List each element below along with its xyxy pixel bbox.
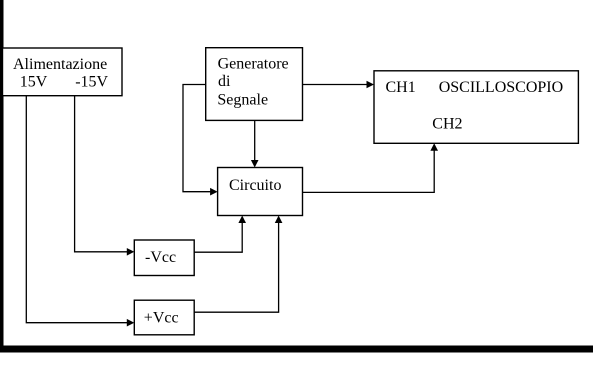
svg-text:-Vcc: -Vcc [145, 249, 176, 266]
box Oscilloscopio [374, 71, 578, 144]
arrowhead up into Circuito (right) [275, 216, 283, 224]
box -Vcc [134, 240, 194, 276]
svg-text:Circuito: Circuito [229, 177, 281, 194]
box Alimentazione [3, 48, 123, 96]
arrowhead up into Oscilloscopio bottom [430, 143, 438, 151]
arrowhead up into Circuito (left) [238, 216, 246, 224]
svg-text:Alimentazione: Alimentazione [13, 56, 107, 73]
wire: Alimentazione 15V down to +Vcc [26, 95, 131, 323]
arrowhead into -Vcc [127, 248, 135, 256]
svg-text:Segnale: Segnale [217, 92, 268, 109]
left scan bar [0, 0, 4, 353]
wire: +Vcc right to Circuito bottom [194, 219, 278, 312]
svg-text:15V: 15V [20, 74, 48, 91]
arrowhead into +Vcc [127, 319, 135, 327]
box Circuito [218, 168, 303, 216]
wire: Circuito right to Oscilloscopio CH2 bottom [303, 147, 435, 192]
svg-text:CH2: CH2 [432, 115, 462, 132]
wire: Alimentazione -15V down to -Vcc [75, 95, 131, 252]
svg-text:Generatore: Generatore [218, 55, 289, 72]
box +Vcc [134, 300, 194, 335]
svg-text:OSCILLOSCOPIO: OSCILLOSCOPIO [439, 79, 563, 96]
bottom scan bar [0, 346, 593, 353]
svg-text:-15V: -15V [75, 74, 108, 91]
svg-text:+Vcc: +Vcc [144, 310, 179, 327]
wire: -Vcc right to Circuito bottom [194, 219, 242, 252]
arrowhead into Oscilloscopio left [367, 81, 375, 89]
box Generatore di Segnale [206, 48, 303, 121]
wire: Generatore left loop into Circuito [183, 85, 214, 192]
arrowhead down into Circuito top [251, 160, 259, 168]
svg-text:CH1: CH1 [386, 79, 416, 96]
wire: Generatore bottom to Circuito top [254, 120, 256, 164]
wire: Generatore right to Oscilloscopio CH1 [303, 84, 372, 86]
arrowhead into Circuito left [210, 188, 218, 196]
svg-text:di: di [218, 73, 231, 90]
